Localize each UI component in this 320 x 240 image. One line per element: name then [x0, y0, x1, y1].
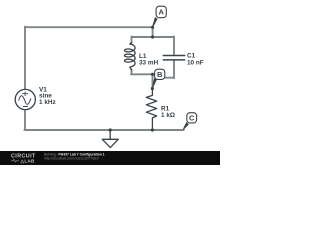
footer bar	[0, 151, 220, 165]
junction dot node B	[151, 87, 154, 90]
node A box	[156, 6, 166, 18]
wire top horizontal	[25, 26, 153, 28]
svg-text:http://circuitlab.com/c/q7zc32: http://circuitlab.com/c/q7zc32r743s2/	[44, 157, 99, 161]
svg-text:A: A	[158, 8, 164, 17]
inductor L1 coil	[125, 43, 136, 71]
node A pointer	[152, 17, 157, 27]
wire tank bottom left	[131, 73, 153, 75]
wire tank top	[132, 36, 175, 38]
node B box	[155, 69, 165, 79]
wire tank center to node B	[152, 74, 154, 88]
node C pointer	[183, 122, 189, 130]
svg-text:33 mH: 33 mH	[139, 60, 159, 67]
svg-text:C1: C1	[187, 52, 196, 59]
junction dot tank bottom	[151, 73, 154, 76]
junction dot tank top	[151, 35, 154, 38]
svg-text:C: C	[189, 114, 195, 123]
wire left vertical lower	[24, 109, 26, 130]
junction dot ground	[109, 128, 112, 131]
wire node A drop	[152, 27, 154, 37]
svg-text:1 kHz: 1 kHz	[39, 99, 56, 106]
voltage source V1 circle	[15, 89, 35, 109]
wire tank right upper	[173, 36, 175, 55]
svg-text:10 nF: 10 nF	[187, 60, 204, 67]
junction node dot A	[151, 26, 154, 29]
ground symbol	[102, 130, 118, 148]
wire bottom horizontal	[24, 129, 183, 131]
svg-text:B: B	[157, 70, 163, 79]
V1 plus sign	[22, 92, 27, 96]
wire tank right lower	[173, 61, 175, 79]
wire tank bottom jog	[153, 74, 175, 77]
label V1	[39, 52, 204, 119]
svg-text:△LAB: △LAB	[20, 159, 36, 164]
wire left vertical upper	[24, 27, 26, 90]
footer logo squiggle	[11, 159, 19, 162]
wire tank left upper	[131, 36, 133, 43]
svg-text:1 kΩ: 1 kΩ	[161, 112, 175, 119]
node C box	[187, 113, 197, 123]
junction dot resistor bottom	[151, 128, 154, 131]
capacitor C1 plates	[163, 56, 184, 60]
V1 sine wave	[19, 96, 31, 105]
V1 minus sign	[23, 106, 27, 108]
resistor R1	[146, 89, 156, 131]
wire tank left lower	[131, 70, 133, 75]
node B pointer	[152, 78, 157, 88]
